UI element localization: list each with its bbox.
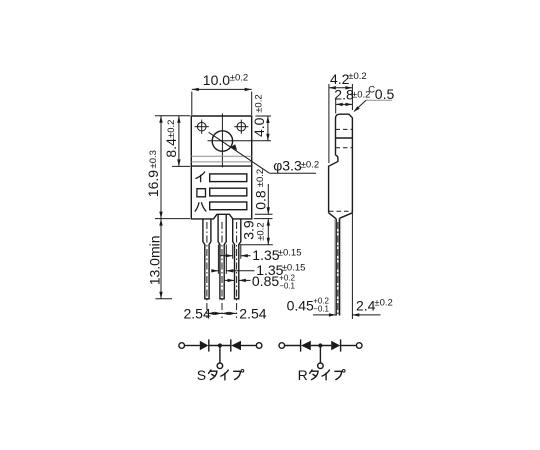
katakana i (イ) label: [196, 172, 205, 182]
svg-text:13.0min: 13.0min: [147, 235, 163, 285]
S type label: [197, 367, 244, 383]
wire: [241, 345, 256, 347]
svg-text:±0.3: ±0.3: [148, 150, 159, 168]
center tap wire: [319, 346, 321, 363]
svg-text:2.54: 2.54: [239, 306, 266, 322]
wire: [311, 345, 331, 347]
diode D4 cathode-right: [331, 341, 340, 350]
side body bottom taper right: [339, 213, 352, 219]
diode D1 anode-left: [200, 341, 209, 350]
dimension 4.2: [329, 71, 367, 163]
dimension 1.35 lead3 root (line A): [220, 245, 301, 263]
big hole phi3.3: [212, 131, 232, 151]
dimension 2.54 pitch right: [222, 306, 267, 322]
dimension 0.85 lead3 width (line C): [224, 273, 296, 290]
dimension 16.9 left: [145, 116, 190, 219]
mounting hole small left circle: [195, 120, 209, 134]
junction node: [318, 343, 322, 347]
svg-text:2.54: 2.54: [184, 306, 211, 322]
R type label: [298, 367, 345, 383]
marking bar 1: [210, 174, 247, 182]
dimension 0.8 / 3.9 right side: [240, 169, 273, 245]
dimension 2.54 pitch left: [184, 306, 222, 322]
dimension 4.0 right top: [251, 94, 271, 140]
svg-text:±0.2: ±0.2: [253, 94, 264, 112]
marking bar 2: [210, 188, 247, 196]
gray line 1 across package: [191, 155, 251, 157]
dimension 0.45 lead thickness: [287, 297, 336, 317]
dimension 8.4 left inner: [163, 116, 190, 167]
svg-text:10.0: 10.0: [203, 72, 230, 88]
svg-text:φ3.3: φ3.3: [273, 158, 302, 174]
wire: [209, 345, 231, 347]
S center terminal: [217, 363, 223, 369]
lead 3 (right): [233, 219, 241, 299]
svg-text:0.45: 0.45: [287, 297, 314, 313]
wire: [341, 345, 357, 347]
dimension 2.8: [334, 87, 370, 114]
svg-text:±0.2: ±0.2: [166, 120, 177, 138]
side hole hidden line upper: [336, 128, 353, 130]
side tab boundary solid line: [336, 137, 353, 139]
mounting hole small right circle: [234, 120, 248, 134]
gray line 2 across package: [191, 161, 251, 163]
wire: [285, 345, 301, 347]
R left terminal: [279, 343, 285, 349]
side body bottom hidden line: [329, 210, 352, 212]
dimension 1.35 lead2 root (line B): [211, 245, 305, 278]
diode D3 cathode-left: [300, 339, 302, 351]
wire: [185, 345, 200, 347]
package body outline: [191, 116, 251, 219]
side hole hidden line lower: [336, 147, 353, 149]
svg-text:3.9: 3.9: [241, 220, 257, 240]
svg-text:±0.15: ±0.15: [278, 247, 302, 258]
svg-text:0.8: 0.8: [253, 190, 269, 210]
S left terminal: [179, 343, 185, 349]
vertical centerline of hole: [221, 114, 223, 168]
horizontal centerline of hole extended right: [208, 140, 272, 142]
svg-text:16.9: 16.9: [145, 170, 161, 197]
katakana ha (ハ) label: [195, 203, 206, 211]
dimension 2.4: [352, 297, 393, 316]
svg-text:R: R: [298, 367, 308, 383]
svg-text:−0.1: −0.1: [313, 305, 329, 314]
R right terminal: [356, 343, 362, 349]
side lead: [335, 218, 341, 315]
svg-text:S: S: [197, 367, 206, 383]
svg-text:8.4: 8.4: [163, 138, 179, 158]
lead 2 centerline: [221, 222, 223, 318]
svg-text:0.85: 0.85: [252, 273, 279, 289]
svg-text:±0.2: ±0.2: [301, 159, 319, 170]
svg-text:0.5: 0.5: [375, 86, 395, 102]
svg-text:±0.2: ±0.2: [230, 73, 248, 84]
diode D2 anode-right: [230, 339, 232, 351]
side right face extension line down: [351, 213, 353, 319]
svg-text:±0.2: ±0.2: [255, 222, 266, 240]
marking bar 3: [210, 202, 247, 210]
lead 1 (left): [203, 219, 211, 299]
black line across package: [191, 165, 251, 167]
svg-text:4.0: 4.0: [251, 117, 267, 137]
svg-text:±0.15: ±0.15: [282, 262, 306, 273]
side body bottom taper left: [329, 213, 337, 219]
R center terminal: [318, 363, 324, 369]
svg-text:−0.1: −0.1: [279, 281, 295, 290]
center tap wire: [219, 346, 221, 363]
dimension 10.0 top: [192, 72, 252, 115]
lead 1 centerline: [206, 222, 208, 318]
dimension 13.0min left: [147, 219, 173, 299]
svg-text:±0.2: ±0.2: [255, 169, 266, 187]
svg-text:1.35: 1.35: [252, 247, 279, 263]
lead 3 centerline: [236, 222, 238, 318]
lead 2 (middle): [218, 214, 226, 298]
side view left jog and body edge: [329, 155, 338, 213]
svg-text:2.4: 2.4: [356, 297, 376, 313]
svg-text:4.2: 4.2: [330, 71, 350, 87]
junction node: [218, 343, 222, 347]
svg-text:±0.2: ±0.2: [348, 71, 366, 82]
S right terminal: [256, 343, 262, 349]
side view tab and body outline: [336, 114, 353, 213]
C0.5 chamfer callout: [353, 85, 394, 113]
phi 3.3 leader: [209, 132, 320, 173]
katakana ro (ロ) label: [197, 189, 206, 197]
svg-text:±0.2: ±0.2: [374, 298, 392, 309]
